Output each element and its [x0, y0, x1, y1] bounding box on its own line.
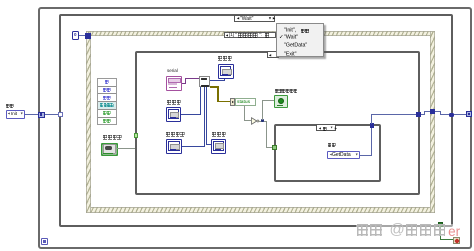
- watermark 知乎 @嵌入式er: [357, 224, 461, 242]
- label 波特率: [218, 56, 232, 74]
- case C2 selector fragment (hidden by menu): [267, 51, 279, 59]
- label 奇偶校验: [166, 132, 185, 150]
- tunnel on C2 right: [416, 112, 421, 117]
- case structure C1 "Wait": [59, 14, 453, 227]
- case C1 selector label "Wait": [234, 15, 275, 22]
- wire SR to case tunnel: [45, 114, 59, 115]
- event structure E1 border bottom: [86, 207, 435, 212]
- tunnel on E1 right: [430, 109, 435, 114]
- wire NOT out: [259, 121, 267, 122]
- label 数据位: [167, 100, 181, 118]
- label 串口打开状态: [275, 89, 298, 107]
- unbundle by name input: [230, 98, 235, 107]
- enum constant GetData: [327, 151, 360, 159]
- numeric control terminal 波特率: [218, 64, 234, 79]
- label 枚举 (enum Init): [6, 104, 14, 122]
- wire jog up: [421, 114, 425, 115]
- cell 源: [98, 79, 116, 87]
- LED indicator 串口打开状态: [274, 95, 288, 108]
- case C3 selector label "True": [316, 124, 336, 131]
- wire junction up to LED: [262, 100, 263, 120]
- NOT gate: [251, 117, 261, 125]
- case C3 selector tunnel (green): [272, 145, 277, 150]
- numeric control terminal 奇偶校验: [166, 139, 182, 154]
- menu item Init: [284, 27, 298, 33]
- VISA configure serial port node: [199, 76, 210, 87]
- case C1 selector tunnel (hollow): [58, 112, 63, 117]
- cell 控件引用: [98, 102, 116, 110]
- cell 原值: [98, 110, 116, 118]
- cell 类型: [98, 86, 116, 94]
- event timeout terminal: [85, 33, 90, 39]
- green tunnel on C1 bottom: [438, 222, 443, 227]
- menu item Exit: [284, 51, 296, 57]
- error wire VISA to unbundle: [210, 86, 218, 87]
- iteration terminal i: [41, 238, 48, 245]
- conditional terminal (stop): [453, 237, 461, 245]
- tunnel on C3 top: [370, 123, 375, 127]
- tunnel on C1 right: [449, 113, 454, 118]
- wire 数据位: [181, 114, 201, 115]
- wire junction down to C3 selector: [266, 121, 267, 148]
- label 枚举 (GetData): [328, 143, 336, 161]
- enum constant Init: [6, 110, 25, 119]
- dropdown menu: [276, 23, 324, 58]
- menu check mark: [279, 34, 283, 40]
- cell 时间: [98, 94, 116, 102]
- wire 停止位: [206, 144, 211, 145]
- unbundle element status: [235, 98, 256, 107]
- case structure C2 (serial config case): [135, 51, 420, 196]
- wire status down to NOT: [244, 106, 245, 121]
- shift register right: [466, 111, 472, 117]
- wire C3 tunnel up to main line: [371, 114, 372, 124]
- wire timeout: [79, 35, 86, 36]
- event structure E1 border top: [86, 31, 435, 36]
- wire C1 to while SR: [454, 114, 467, 115]
- boolean terminal 打开串口 (button): [101, 143, 118, 157]
- case structure C3 "True": [274, 124, 382, 183]
- event structure E1 border right: [430, 31, 435, 213]
- label serial: [167, 68, 178, 73]
- VISA resource constant serial: [166, 76, 182, 91]
- wire 打开串口 to case border: [117, 148, 135, 149]
- menu item GetData: [284, 42, 307, 48]
- junction dot: [261, 119, 264, 122]
- label 打开串口: [103, 135, 122, 153]
- wire 波特率 to VISA node: [224, 79, 225, 82]
- shift register left: [38, 112, 45, 118]
- numeric control terminal 停止位: [211, 139, 226, 154]
- wire E1 to C1 tunnel: [435, 111, 441, 112]
- label 停止位: [212, 132, 226, 150]
- event E1 selector label [1] "打开串口": 值改变: [224, 32, 277, 38]
- wire GetData right and up: [360, 155, 373, 156]
- numeric control terminal 数据位: [166, 107, 181, 122]
- main enum wire to C2 tunnel: [371, 114, 417, 115]
- event data node: [97, 78, 117, 125]
- wire 奇偶校验: [182, 146, 205, 147]
- numeric constant 0 (timeout): [72, 31, 79, 40]
- watermark underlay: [356, 224, 468, 236]
- menu item Wait: [284, 34, 298, 40]
- green tunnel on C2 left border: [134, 133, 139, 138]
- green wire to conditional terminal: [440, 227, 441, 240]
- cell 新值: [98, 118, 116, 125]
- wire enum to SR: [25, 114, 39, 115]
- event structure E1 border left: [86, 31, 91, 213]
- wire serial to VISA node: [182, 83, 186, 84]
